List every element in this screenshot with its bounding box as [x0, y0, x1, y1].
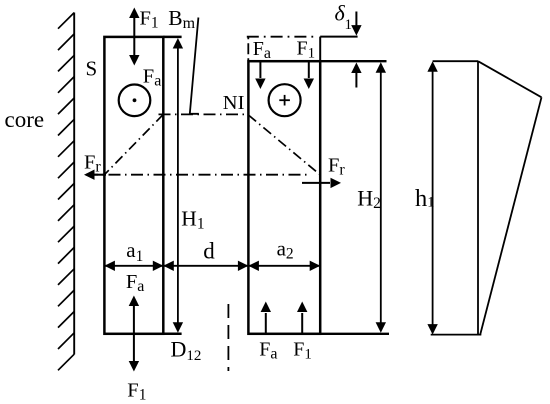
- svg-text:S: S: [86, 57, 98, 81]
- H1 dimension line with arrows: [177, 47, 179, 324]
- conductor 2 bottom force arrow Fa: [265, 313, 267, 333]
- conductor 2 bottom edge extension: [320, 333, 389, 335]
- Fr right arrow: [302, 182, 330, 184]
- svg-text:core: core: [5, 107, 45, 132]
- NI dash-dot line: [159, 113, 249, 115]
- core wall line: [73, 13, 75, 355]
- conductor 1 rectangle: [104, 37, 163, 334]
- Fr left arrow: [93, 174, 106, 176]
- F1 force arrow top (double headed): [133, 16, 135, 57]
- flux profile lower slant: [480, 97, 541, 334]
- d dimension arrowheads: [163, 261, 174, 271]
- core wall hatching: [58, 13, 74, 371]
- dashed symmetry line: [227, 304, 229, 371]
- flux profile bottom edge: [431, 334, 482, 336]
- delta1 right edge extension: [319, 37, 321, 62]
- original position left edge dash-dot: [247, 38, 249, 61]
- h1 dimension line with arrows: [432, 70, 434, 326]
- Fa force arrow bottom-left (double headed): [133, 304, 135, 363]
- delta1 up arrow: [355, 73, 357, 88]
- conductor 2 top edge extension: [320, 60, 386, 62]
- H2 dimension line with arrows: [380, 71, 382, 324]
- conductor 2 top force arrow F1: [308, 62, 310, 78]
- conductor 2 top force arrow Fa: [259, 62, 261, 78]
- a2 dimension arrowheads: [248, 261, 259, 271]
- flux profile upper slant: [478, 61, 542, 97]
- Fr dash-dot center line: [86, 174, 310, 176]
- current plus circle conductor 2: [269, 84, 301, 116]
- left leakage diagonal dash-dot: [104, 114, 163, 174]
- original position dash-dot line: [247, 36, 317, 38]
- conductor 2 bottom force arrow F1: [301, 313, 303, 333]
- conductor 2 rectangle: [248, 61, 320, 334]
- svg-text:NI: NI: [223, 92, 245, 114]
- Bm flux density line: [190, 18, 199, 114]
- svg-text:1: 1: [345, 17, 353, 33]
- right leakage diagonal dash-dot: [248, 115, 319, 175]
- svg-text:d: d: [203, 239, 215, 264]
- delta1 down arrow: [355, 12, 357, 27]
- dimension base line a1 d a2: [104, 265, 320, 267]
- conductor 1 top edge extension: [163, 36, 181, 39]
- delta1 reference line: [320, 36, 357, 38]
- a1 dimension arrowheads: [104, 261, 115, 271]
- current dot circle conductor 1: [119, 85, 151, 117]
- flux profile top edge: [433, 60, 478, 62]
- conductor 1 bottom edge extension: [163, 333, 181, 336]
- flux profile vertical line: [477, 61, 479, 334]
